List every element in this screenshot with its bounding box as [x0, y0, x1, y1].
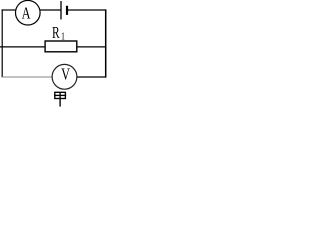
wire: middle rail left segment	[0, 46, 46, 48]
wire: top rail left segment	[2, 9, 16, 11]
ammeter A1 circle	[15, 0, 40, 25]
ammeter label A	[22, 5, 31, 23]
wire: bottom rail left segment (gray)	[2, 76, 52, 78]
resistor R1 box	[45, 41, 77, 52]
svg-text:R: R	[52, 24, 60, 43]
resistor label subscript 1	[61, 31, 65, 42]
battery short plate (-)	[66, 6, 68, 15]
wire: right vertical	[105, 9, 107, 77]
svg-text:A: A	[22, 5, 31, 23]
wire: middle rail right segment	[77, 46, 107, 48]
wire: left vertical	[1, 9, 3, 77]
resistor label R	[52, 24, 60, 43]
voltmeter V1 circle	[52, 64, 77, 89]
caption 甲 (jiǎ) drawn strokes	[54, 92, 66, 106]
wire: top rail right segment	[68, 9, 107, 11]
svg-text:V: V	[61, 66, 70, 84]
svg-text:1: 1	[61, 31, 65, 42]
voltmeter label V	[61, 66, 70, 84]
wire: top rail middle segment	[40, 9, 61, 11]
battery long plate (+)	[60, 1, 62, 19]
wire: bottom rail right segment	[77, 76, 106, 78]
